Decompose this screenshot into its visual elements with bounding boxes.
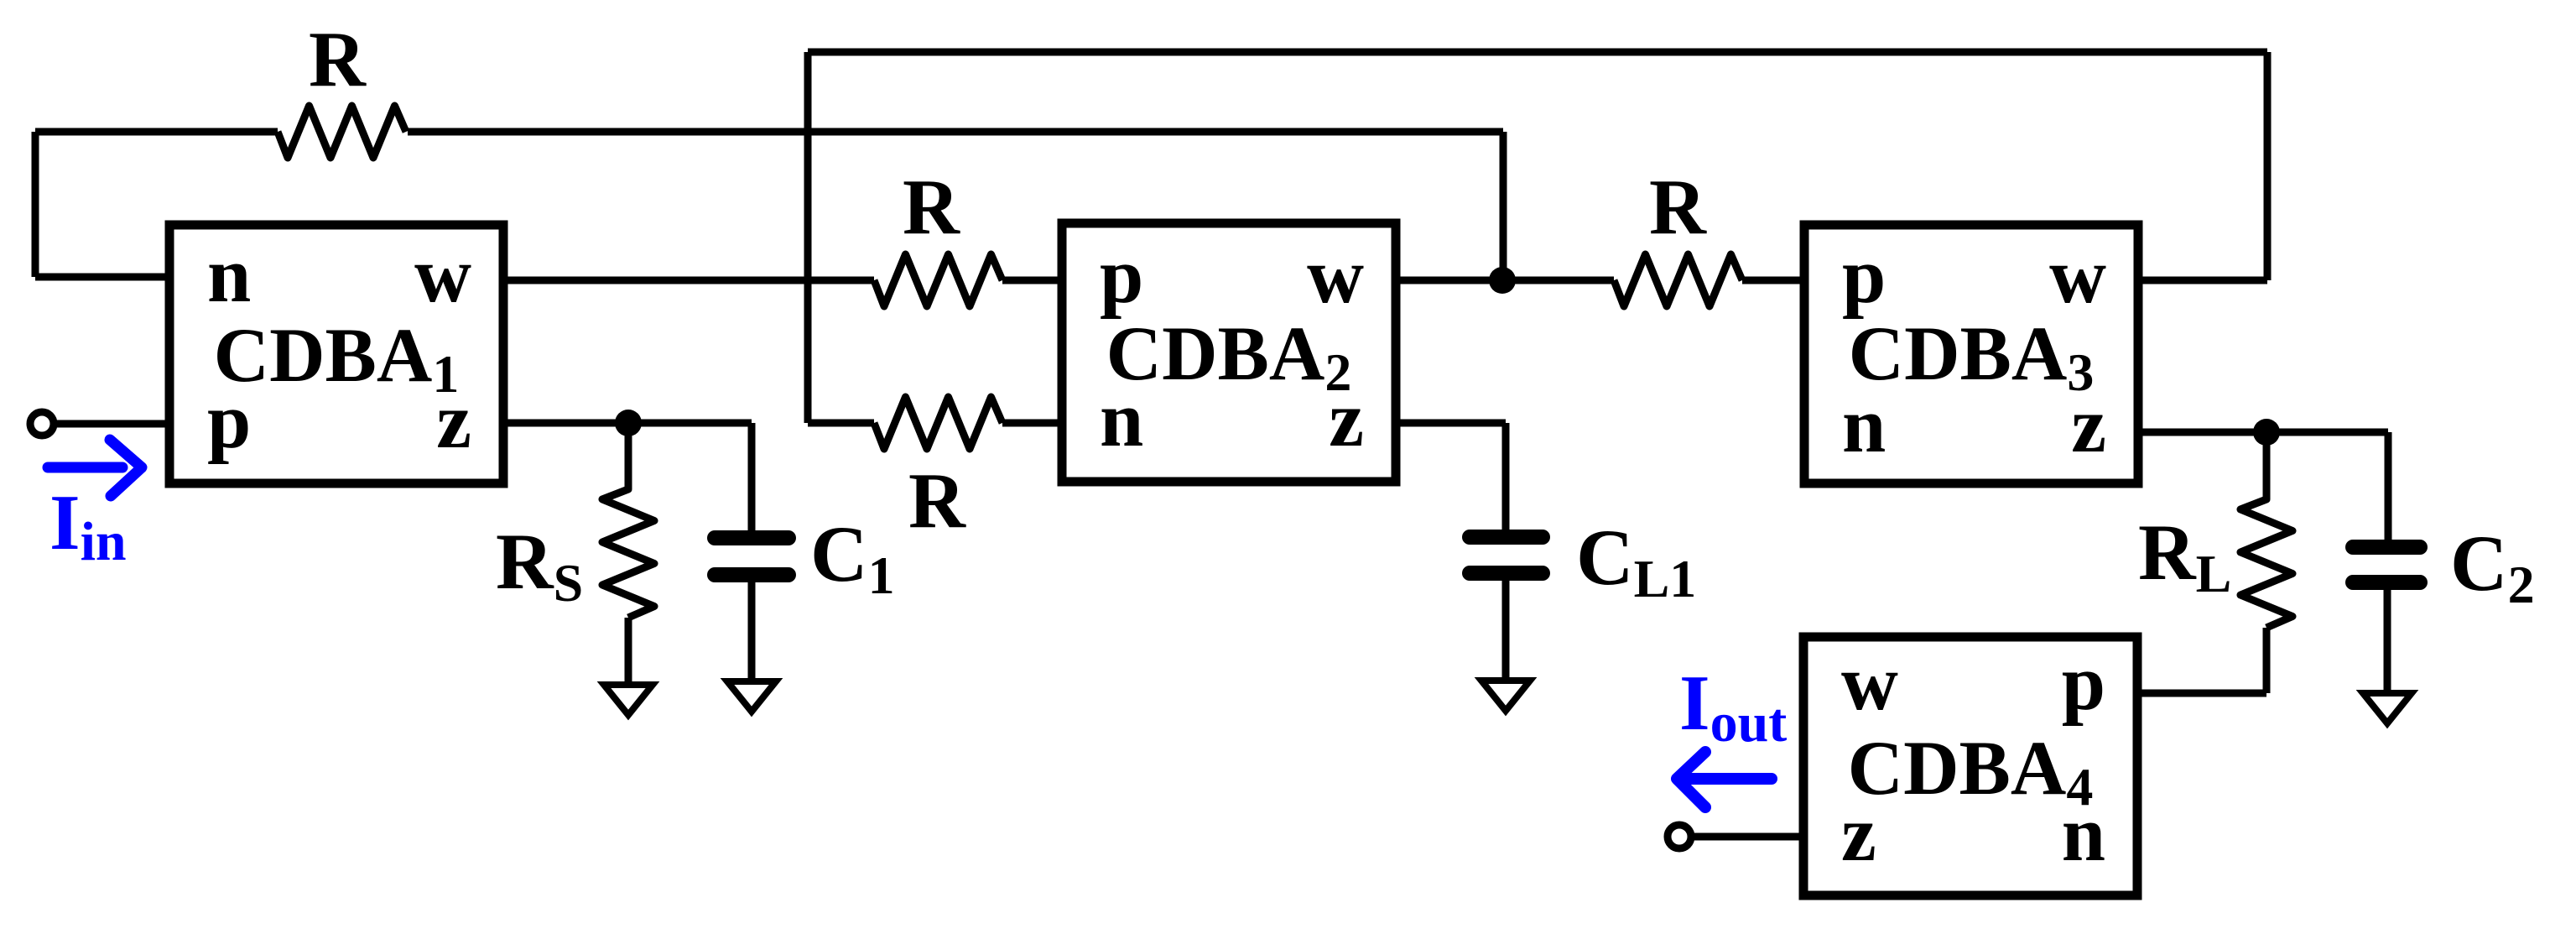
svg-text:p: p <box>1842 232 1886 320</box>
node A junction dot <box>615 410 642 436</box>
wire top feedback CDBA3.w to CDBA2.n <box>808 52 2267 423</box>
svg-text:w: w <box>1307 232 1364 320</box>
svg-text:n: n <box>207 232 251 319</box>
wire C2 to ground <box>2384 590 2391 693</box>
svg-text:CDBA4: CDBA4 <box>1848 725 2094 817</box>
wire CDBA2.w to node B <box>1396 277 1502 284</box>
wire R3 to CDBA2.n <box>1002 420 1062 427</box>
svg-text:CDBA3: CDBA3 <box>1849 310 2095 402</box>
wire R4 to CDBA3.p <box>1742 277 1804 284</box>
wire R2 to CDBA2.p <box>1002 277 1062 284</box>
svg-text:w: w <box>1841 639 1898 727</box>
svg-text:p: p <box>1100 232 1143 320</box>
resistor RL <box>2240 432 2292 628</box>
svg-text:RL: RL <box>2138 508 2231 603</box>
capacitor C2 <box>2353 547 2420 582</box>
ground (CL1) <box>1481 681 1530 711</box>
input terminal <box>30 412 54 436</box>
wire CDBA1 n input <box>35 274 169 281</box>
ground (C1) <box>727 681 776 712</box>
wire CDBA2.z to CL1 <box>1396 423 1506 530</box>
wire RS bottom lead <box>625 618 632 685</box>
svg-text:R: R <box>1649 164 1707 251</box>
op-amp block CDBA3 <box>1804 225 2138 483</box>
svg-text:CDBA2: CDBA2 <box>1106 310 1352 402</box>
capacitor C1 <box>715 538 788 575</box>
wire C1 to ground <box>748 582 756 682</box>
op-amp block CDBA2 <box>1062 223 1396 482</box>
svg-text:R: R <box>309 16 367 103</box>
svg-text:CL1: CL1 <box>1576 513 1696 608</box>
ground (C2) <box>2363 693 2412 723</box>
wire CDBA3.z to node C and C2 <box>2138 432 2388 540</box>
svg-text:C1: C1 <box>810 509 895 605</box>
wire CL1 to ground <box>1502 580 1510 682</box>
svg-text:w: w <box>414 232 471 319</box>
svg-text:CDBA1: CDBA1 <box>214 312 460 404</box>
resistor RS <box>602 423 654 618</box>
op-amp block CDBA4 <box>1803 637 2137 895</box>
wire CDBA4.z to output terminal <box>1691 833 1803 841</box>
wire node B to R4 <box>1502 277 1614 284</box>
ground (RS) <box>604 685 653 715</box>
svg-text:RS: RS <box>496 517 583 613</box>
wire CDBA3 w output <box>2138 277 2267 284</box>
resistor R3 <box>874 397 1002 449</box>
wire CDBA1.z to node A <box>503 420 628 427</box>
svg-text:w: w <box>2049 232 2106 320</box>
svg-text:Iout: Iout <box>1679 660 1787 754</box>
wire RL bottom to CDBA4.p <box>2137 628 2266 693</box>
resistor R4 <box>1614 254 1742 306</box>
arrow Iin <box>48 440 142 496</box>
svg-text:R: R <box>903 164 960 251</box>
wire feedback R net CDBA1.n to node W2 <box>35 132 1503 280</box>
arrow Iout <box>1677 752 1772 807</box>
svg-text:C2: C2 <box>2450 519 2535 614</box>
capacitor CL1 <box>1470 537 1543 573</box>
svg-text:R: R <box>908 457 966 545</box>
wire node vertical to R3 <box>808 420 874 427</box>
op-amp block CDBA1 <box>169 225 503 483</box>
node C junction dot <box>2253 419 2280 446</box>
resistor R2 <box>874 254 1002 306</box>
svg-text:p: p <box>2062 639 2105 727</box>
wire node A to C1 <box>628 423 752 531</box>
wire input terminal to CDBA1.p <box>53 420 169 428</box>
output terminal <box>1668 825 1691 848</box>
node B junction dot <box>1489 267 1516 294</box>
wire CDBA1.w to R2 <box>503 277 874 284</box>
resistor R1 <box>278 106 406 158</box>
